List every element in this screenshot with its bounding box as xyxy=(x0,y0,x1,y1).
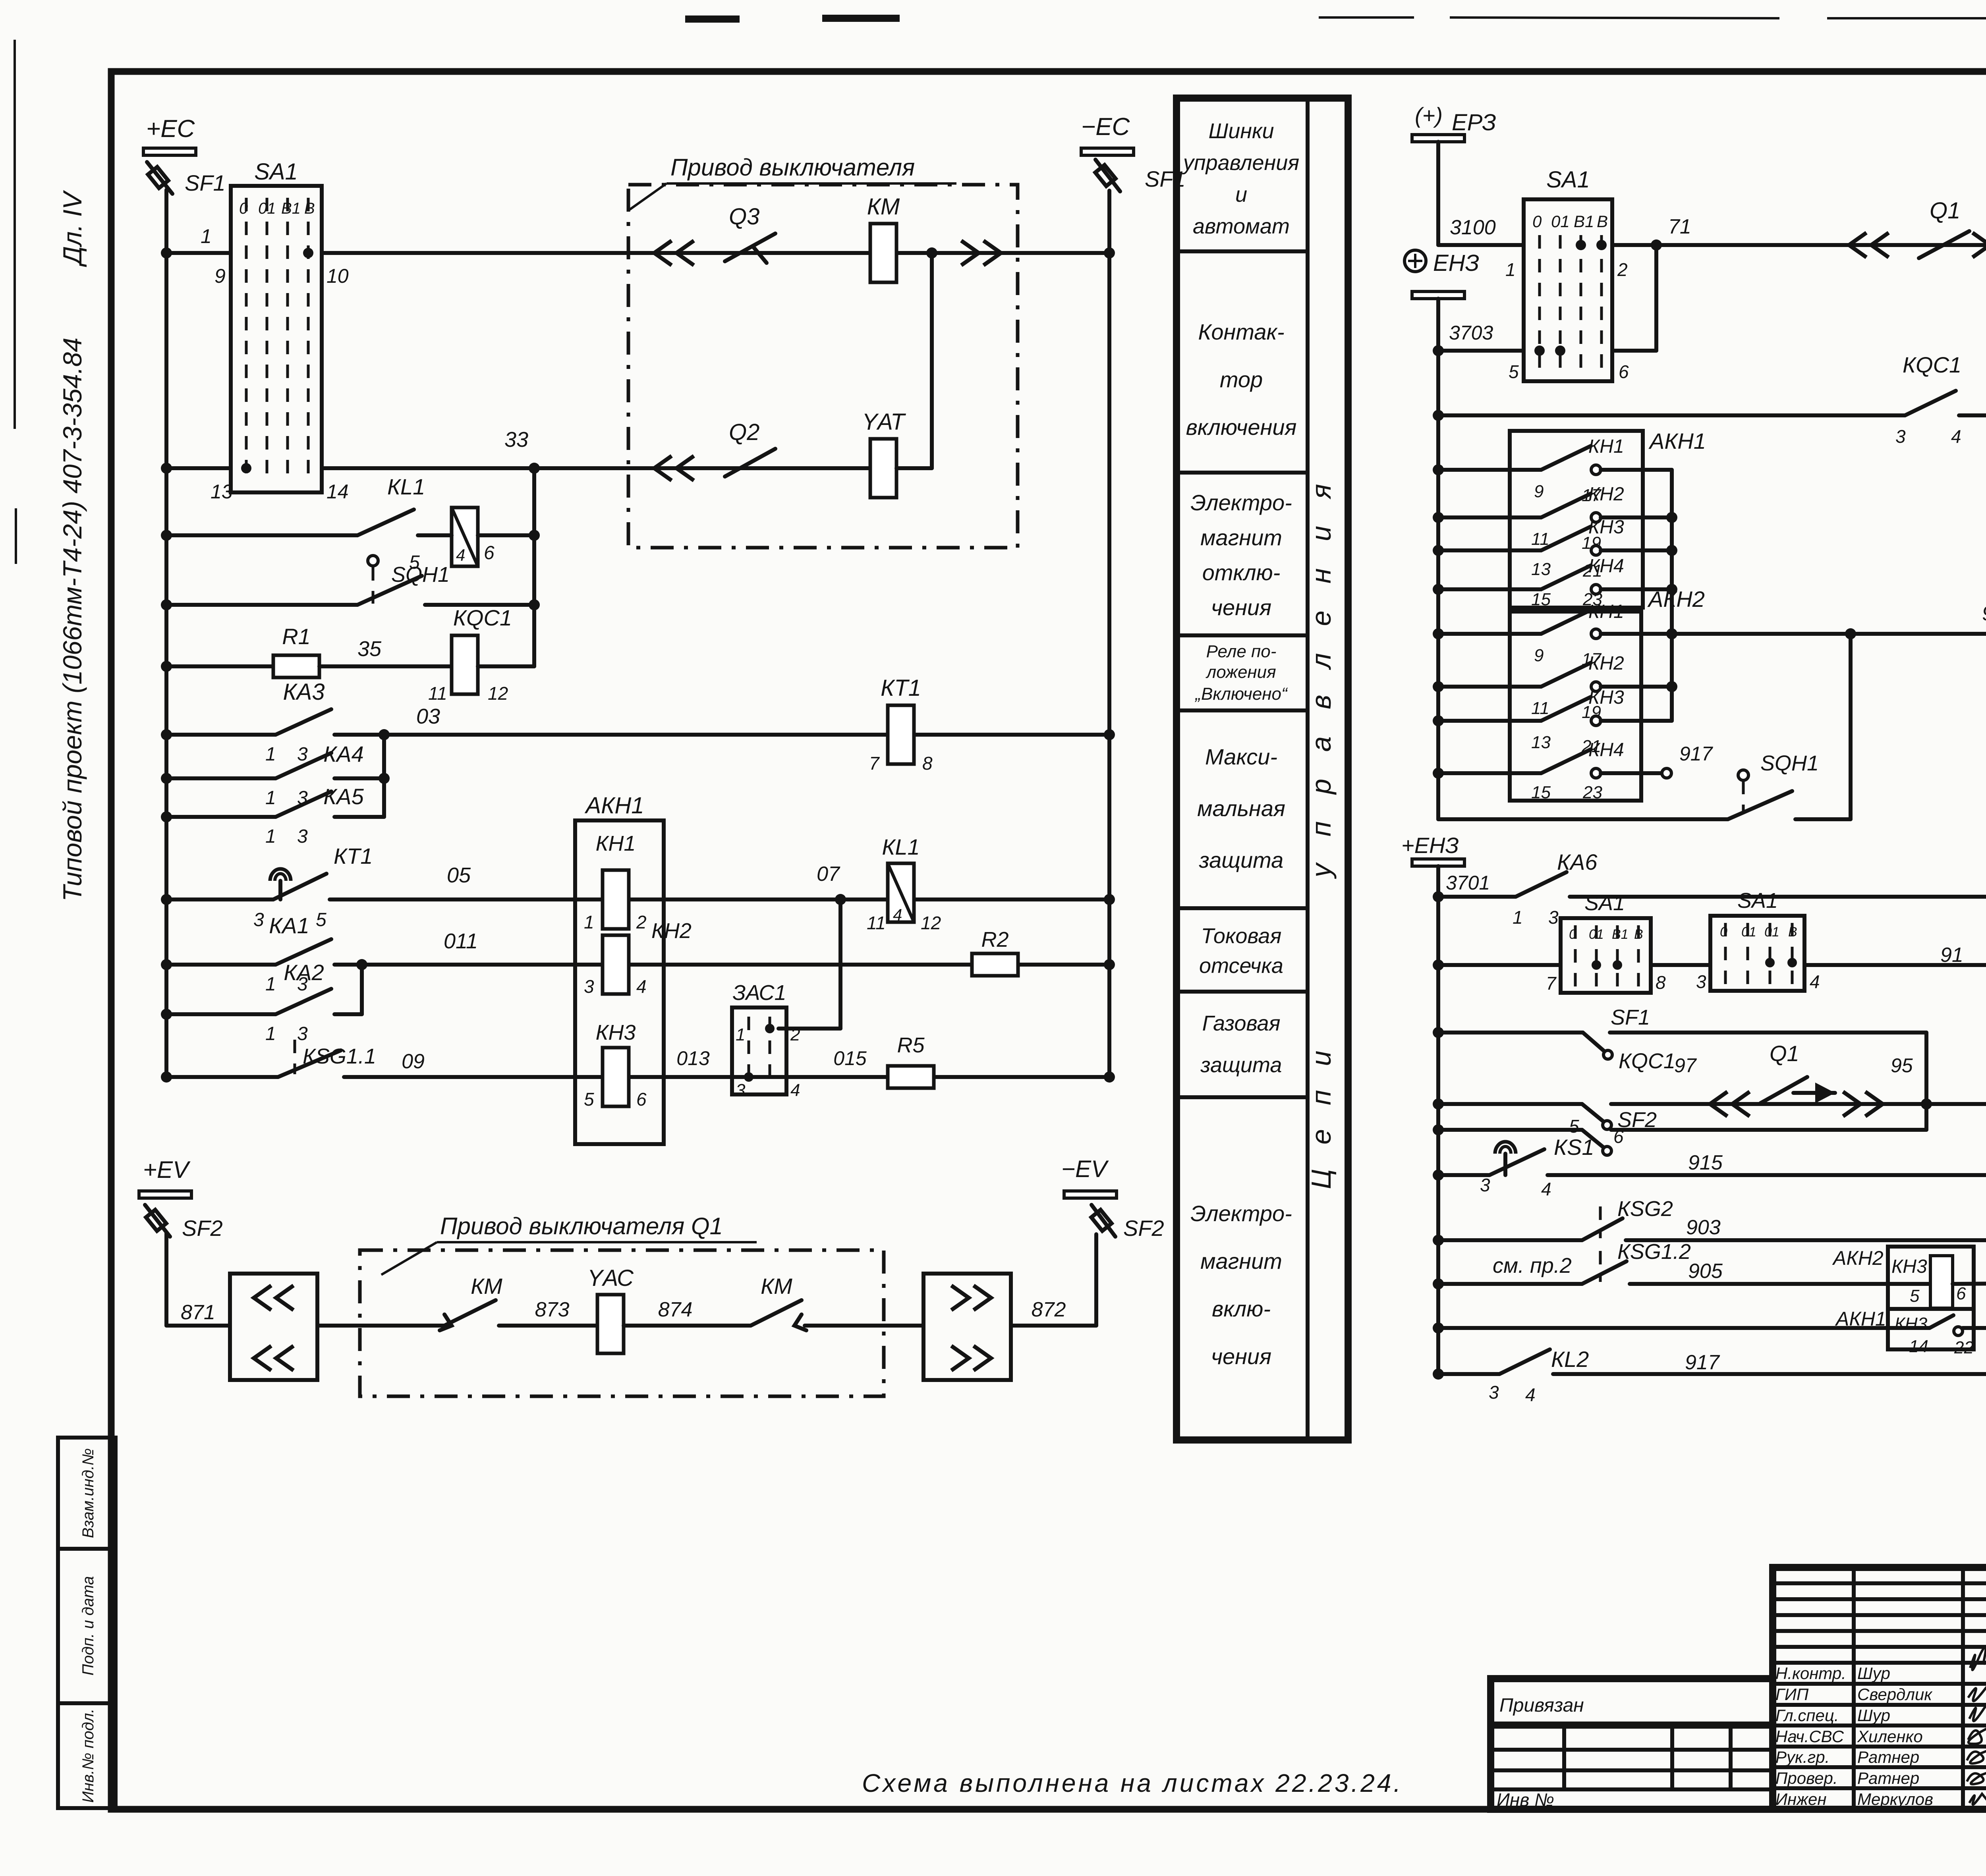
svg-text:отсечка: отсечка xyxy=(1199,954,1283,978)
wire 872 xyxy=(1011,1324,1096,1328)
svg-text:+ЕV: +ЕV xyxy=(143,1156,191,1183)
wire YAT to KM node xyxy=(896,466,932,470)
svg-text:1: 1 xyxy=(1505,259,1516,280)
svg-text:КL1: КL1 xyxy=(387,474,425,499)
svg-text:В: В xyxy=(1597,212,1608,231)
svg-text:01: 01 xyxy=(1764,924,1779,940)
svg-text:отклю-: отклю- xyxy=(1202,560,1281,585)
legend row line 7 xyxy=(1177,1095,1308,1099)
node after KM xyxy=(926,247,937,259)
svg-text:71: 71 xyxy=(1668,215,1691,238)
svg-text:Привод выключателя Q1: Привод выключателя Q1 xyxy=(440,1213,723,1239)
signature scribbles xyxy=(1967,1647,1986,1805)
svg-text:+ЕС: +ЕС xyxy=(146,115,195,143)
svg-text:3: 3 xyxy=(1480,1175,1490,1195)
svg-text:0: 0 xyxy=(1569,927,1576,942)
svg-text:9: 9 xyxy=(214,265,226,287)
gas relay contact KSG1.1 xyxy=(166,1075,278,1079)
breaker SF1 left xyxy=(147,162,172,194)
node 33 xyxy=(529,463,540,474)
legend row line 5 xyxy=(1177,906,1308,910)
contact KN1 a xyxy=(1438,468,1541,472)
svg-text:КSG1.1: КSG1.1 xyxy=(303,1044,376,1068)
breaker SF2 row xyxy=(1438,1128,1582,1132)
svg-text:13: 13 xyxy=(211,481,233,503)
svg-text:КQС1: КQС1 xyxy=(1903,352,1961,377)
current relay contact KA1 xyxy=(166,963,276,967)
svg-text:ЗАС1: ЗАС1 xyxy=(732,981,786,1005)
svg-text:0: 0 xyxy=(1532,212,1542,231)
svg-text:+ЕНЗ: +ЕНЗ xyxy=(1401,833,1459,858)
bus -EV bar xyxy=(1064,1191,1117,1198)
svg-text:15: 15 xyxy=(1531,783,1551,802)
svg-text:АКН2: АКН2 xyxy=(1647,587,1705,612)
svg-text:КL2: КL2 xyxy=(1551,1347,1589,1372)
svg-text:Шур: Шур xyxy=(1857,1706,1890,1725)
contact KN3 14-22 row 911 xyxy=(1438,1326,1930,1330)
wire ZAS1 pin2 to node 07 xyxy=(779,1027,840,1031)
breaker SF1 row 95 xyxy=(1438,1031,1583,1035)
svg-text:КН3: КН3 xyxy=(596,1021,636,1044)
svg-text:КН1: КН1 xyxy=(1588,436,1624,457)
contact KQC1 b xyxy=(1438,1102,1582,1106)
contact KN1 b / wire 901 xyxy=(1438,632,1541,636)
svg-text:SF2: SF2 xyxy=(182,1216,223,1241)
chevrons wire2 xyxy=(654,456,694,481)
contact Q3 xyxy=(725,234,775,261)
svg-text:Взам.инд.№: Взам.инд.№ xyxy=(79,1448,97,1538)
svg-text:В: В xyxy=(1788,924,1797,940)
heater KH1 xyxy=(603,870,629,929)
svg-text:1: 1 xyxy=(201,225,212,247)
collector vertical xyxy=(1670,470,1674,721)
svg-text:магнит: магнит xyxy=(1200,525,1282,550)
svg-text:управления: управления xyxy=(1306,457,1337,879)
contact KA6 row 919 xyxy=(1438,895,1516,899)
svg-text:Инв №: Инв № xyxy=(1497,1789,1554,1810)
svg-text:ЕРЗ: ЕРЗ xyxy=(1452,110,1496,135)
heater KH4 c xyxy=(1926,1102,1986,1106)
svg-text:09: 09 xyxy=(402,1050,425,1073)
svg-text:Нач.СВС: Нач.СВС xyxy=(1775,1727,1844,1746)
svg-text:Шур: Шур xyxy=(1857,1664,1890,1683)
svg-text:3: 3 xyxy=(1696,971,1706,992)
svg-text:1: 1 xyxy=(584,912,594,932)
legend row line 6 xyxy=(1177,990,1308,994)
svg-text:5: 5 xyxy=(1509,361,1519,382)
heater KH2 xyxy=(603,935,629,994)
svg-text:3100: 3100 xyxy=(1450,216,1496,239)
svg-text:−ЕС: −ЕС xyxy=(1081,113,1130,141)
svg-text:В: В xyxy=(304,200,315,217)
contact KN3 b xyxy=(1438,719,1541,723)
signal bus vertical 2 xyxy=(1436,866,1440,1374)
svg-text:Электро-: Электро- xyxy=(1190,1201,1292,1226)
drive box dashed xyxy=(628,185,1018,548)
svg-text:чения: чения xyxy=(1211,595,1271,620)
svg-text:В1: В1 xyxy=(1612,927,1629,942)
svg-text:1: 1 xyxy=(265,1023,276,1044)
svg-text:Хиленко: Хиленко xyxy=(1857,1727,1923,1746)
svg-text:КТ1: КТ1 xyxy=(881,675,921,701)
svg-text:Привязан: Привязан xyxy=(1499,1695,1584,1716)
current relay contact KA4 xyxy=(166,776,276,780)
svg-text:6: 6 xyxy=(636,1089,647,1110)
svg-text:SF1: SF1 xyxy=(1611,1006,1650,1029)
resistor R5 xyxy=(888,1066,934,1088)
legend text: trip electromagnet xyxy=(1190,490,1292,620)
svg-text:9: 9 xyxy=(1534,646,1544,665)
svg-text:КН4: КН4 xyxy=(1588,739,1624,760)
sheet edge dash top c xyxy=(1319,16,1414,19)
svg-text:011: 011 xyxy=(444,929,478,953)
svg-text:3703: 3703 xyxy=(1449,322,1493,344)
box AKN2/KN3 small xyxy=(1888,1247,1974,1349)
svg-text:магнит: магнит xyxy=(1200,1249,1282,1274)
wire EP3 down xyxy=(1436,142,1440,245)
chevrons 71 xyxy=(1849,233,1889,257)
svg-text:КА1: КА1 xyxy=(269,913,309,938)
contact Q2 xyxy=(725,449,775,477)
heater KH3 small xyxy=(1930,1256,1953,1308)
breaker SF2 left xyxy=(145,1205,170,1237)
legend text: gas protection xyxy=(1200,1011,1282,1077)
contactor contact KM b xyxy=(751,1300,802,1326)
sheet edge dash top a xyxy=(685,15,740,23)
svg-text:4: 4 xyxy=(636,976,647,997)
bus -EC bar xyxy=(1081,148,1134,155)
svg-text:АКН2: АКН2 xyxy=(1832,1247,1884,1269)
svg-text:КS1: КS1 xyxy=(1554,1135,1594,1160)
test switch ZAS1 xyxy=(732,1007,786,1094)
svg-text:Электро-: Электро- xyxy=(1190,490,1292,515)
svg-text:11: 11 xyxy=(1531,699,1549,718)
svg-text:4: 4 xyxy=(456,546,465,564)
svg-text:3: 3 xyxy=(584,976,594,997)
contact Q1 top xyxy=(1919,231,1969,258)
svg-text:R1: R1 xyxy=(282,624,311,649)
svg-text:КQС1: КQС1 xyxy=(453,605,512,630)
closing coil YAC xyxy=(597,1295,624,1353)
bus +EC bar xyxy=(143,148,196,155)
sheet edge mark left xyxy=(14,40,16,429)
svg-text:Свердлик: Свердлик xyxy=(1857,1685,1933,1704)
svg-text:вклю-: вклю- xyxy=(1212,1296,1271,1321)
svg-text:872: 872 xyxy=(1032,1298,1066,1321)
svg-text:КМ: КМ xyxy=(867,194,900,220)
svg-text:управления: управления xyxy=(1182,151,1299,175)
wire row 1 left xyxy=(166,251,231,255)
plus circle EH3 xyxy=(1404,250,1426,272)
svg-text:КТ1: КТ1 xyxy=(334,843,373,869)
legend row line 4 xyxy=(1177,708,1308,712)
legend text: max protection xyxy=(1197,744,1285,872)
switch SA1 d xyxy=(1710,916,1804,991)
aux device KL1 rect xyxy=(452,508,478,566)
svg-text:Схема выполнена на листах: Схема выполнена на листах 22.23.24. xyxy=(862,1769,1403,1797)
bus +EV bar xyxy=(139,1191,191,1198)
svg-text:Контак-: Контак- xyxy=(1198,319,1284,344)
contact KSG1.2 row 905 xyxy=(1438,1282,1582,1286)
svg-text:Гл.спец.: Гл.спец. xyxy=(1775,1706,1839,1725)
svg-text:5: 5 xyxy=(316,909,326,930)
svg-text:1: 1 xyxy=(265,974,276,995)
svg-text:Токовая: Токовая xyxy=(1201,924,1282,948)
contact KN4 b wire 917 xyxy=(1438,771,1541,775)
wire row 2 xyxy=(166,466,231,470)
svg-text:защита: защита xyxy=(1199,847,1284,872)
svg-text:0: 0 xyxy=(1720,924,1727,940)
svg-text:917: 917 xyxy=(1685,1351,1720,1374)
title block outer xyxy=(1773,1567,1986,1809)
arrows box right xyxy=(923,1274,1011,1380)
svg-text:5: 5 xyxy=(584,1089,594,1110)
svg-text:917: 917 xyxy=(1679,743,1714,765)
svg-text:5: 5 xyxy=(1910,1286,1920,1306)
position switch SQH1 xyxy=(166,603,357,607)
svg-text:YАТ: YАТ xyxy=(862,409,906,435)
svg-text:см. пр.2: см. пр.2 xyxy=(1493,1254,1572,1278)
svg-text:Макси-: Макси- xyxy=(1205,744,1277,769)
svg-text:1: 1 xyxy=(265,826,276,847)
svg-text:КQС1: КQС1 xyxy=(1619,1049,1675,1073)
svg-text:13: 13 xyxy=(1531,733,1551,752)
svg-text:ЕНЗ: ЕНЗ xyxy=(1433,250,1479,276)
svg-text:R5: R5 xyxy=(897,1033,925,1057)
svg-text:КL1: КL1 xyxy=(882,834,920,859)
current relay contact KA2 xyxy=(166,1012,276,1016)
svg-text:903: 903 xyxy=(1686,1216,1721,1239)
wire to KM contact xyxy=(317,1324,444,1328)
svg-text:Q3: Q3 xyxy=(729,204,759,230)
svg-text:R2: R2 xyxy=(981,928,1008,952)
svg-text:мальная: мальная xyxy=(1197,796,1285,821)
svg-text:22: 22 xyxy=(1954,1338,1974,1357)
legend text: current cutoff xyxy=(1199,924,1283,978)
svg-text:КSG2: КSG2 xyxy=(1617,1197,1673,1221)
current relay contact KA5 xyxy=(166,815,276,819)
switch SA1 right xyxy=(1524,199,1612,381)
svg-text:КН2: КН2 xyxy=(1588,653,1624,674)
sheet edge dash top d xyxy=(1450,17,1779,18)
svg-text:01: 01 xyxy=(1589,927,1604,942)
svg-text:6: 6 xyxy=(1956,1284,1966,1303)
resistor R1 row xyxy=(166,664,273,668)
svg-text:КН2: КН2 xyxy=(651,919,692,943)
svg-text:10: 10 xyxy=(326,265,349,287)
breaker SF2 right xyxy=(1092,1205,1115,1237)
chevrons wire1 xyxy=(654,241,694,265)
margin stamp box Inv xyxy=(58,1703,116,1808)
signature table columns xyxy=(1852,1567,1856,1809)
relay contact KL1 row xyxy=(166,533,357,537)
legend row line 1 xyxy=(1177,249,1308,253)
svg-text:3: 3 xyxy=(1895,426,1906,447)
svg-text:КА4: КА4 xyxy=(323,741,364,766)
svg-text:3701: 3701 xyxy=(1446,872,1490,894)
svg-text:11: 11 xyxy=(428,683,447,704)
svg-text:Меркулов: Меркулов xyxy=(1857,1790,1933,1808)
privyazan table xyxy=(1491,1679,1773,1809)
svg-text:3: 3 xyxy=(297,1023,308,1044)
svg-text:873: 873 xyxy=(535,1298,570,1321)
contact KN2 b xyxy=(1438,685,1541,689)
svg-text:АКН1: АКН1 xyxy=(584,793,644,818)
bus EH3 bar xyxy=(1412,291,1464,299)
svg-text:13: 13 xyxy=(1531,560,1551,579)
contact KN3 a xyxy=(1438,548,1541,552)
heater KH3 xyxy=(603,1048,629,1106)
svg-text:„Включено“: „Включено“ xyxy=(1194,684,1288,704)
svg-text:включения: включения xyxy=(1186,415,1297,440)
contactor contact KM a xyxy=(444,1300,496,1326)
svg-text:Инв.№ подл.: Инв.№ подл. xyxy=(79,1708,97,1803)
svg-text:Рук.гр.: Рук.гр. xyxy=(1775,1748,1830,1766)
svg-text:1: 1 xyxy=(1513,907,1523,928)
arrows box left xyxy=(230,1274,317,1380)
svg-text:14: 14 xyxy=(326,481,349,503)
svg-text:0: 0 xyxy=(239,200,248,217)
svg-text:01: 01 xyxy=(1551,212,1570,231)
svg-text:05: 05 xyxy=(447,863,471,887)
legend row line 2 xyxy=(1177,471,1308,475)
svg-text:01: 01 xyxy=(258,200,276,217)
svg-text:КН3: КН3 xyxy=(1588,687,1624,708)
wire 71 xyxy=(1612,243,1986,247)
svg-text:В1: В1 xyxy=(281,200,301,217)
svg-text:3: 3 xyxy=(297,744,308,765)
right control bus -EC xyxy=(1107,191,1111,1077)
svg-text:7: 7 xyxy=(1546,973,1557,994)
svg-text:15: 15 xyxy=(1531,590,1551,609)
breaker SF1 right xyxy=(1095,160,1120,191)
svg-text:11: 11 xyxy=(867,913,886,933)
svg-text:Подп. и дата: Подп. и дата xyxy=(79,1576,97,1675)
svg-text:КА5: КА5 xyxy=(323,784,364,809)
contact KQC1 row 75 xyxy=(1438,413,1905,417)
svg-text:и: и xyxy=(1235,183,1247,207)
svg-text:4: 4 xyxy=(1541,1179,1551,1199)
signature rows xyxy=(1773,1682,1986,1686)
contact KN2 a xyxy=(1438,515,1541,519)
timer contact KT1 xyxy=(166,897,273,901)
svg-text:013: 013 xyxy=(676,1047,710,1069)
svg-text:SQН1: SQН1 xyxy=(1760,751,1819,775)
svg-text:95: 95 xyxy=(1891,1054,1913,1077)
svg-text:защита: защита xyxy=(1200,1053,1282,1077)
svg-text:2: 2 xyxy=(1617,259,1628,280)
svg-text:12: 12 xyxy=(488,683,508,704)
svg-text:905: 905 xyxy=(1688,1260,1723,1283)
svg-text:871: 871 xyxy=(181,1301,215,1324)
svg-text:Типовой проект (1066тм-Т4-24): Типовой проект (1066тм-Т4-24) 407-3-354.… xyxy=(58,338,87,901)
legend text: closing electromagnet xyxy=(1190,1201,1292,1369)
svg-text:015: 015 xyxy=(833,1047,867,1069)
svg-text:97: 97 xyxy=(1674,1054,1697,1077)
row 91 switch SA1 c xyxy=(1438,963,1561,967)
svg-text:Цепи: Цепи xyxy=(1306,1027,1337,1189)
contact Q1 row 95 xyxy=(1760,1077,1807,1103)
svg-text:КН3: КН3 xyxy=(1588,517,1624,538)
svg-text:АКН1: АКН1 xyxy=(1648,428,1706,454)
svg-text:Реле по-: Реле по- xyxy=(1206,642,1277,661)
sheet edge mark left lower xyxy=(15,508,17,564)
switch SA1 xyxy=(231,186,322,492)
svg-text:5: 5 xyxy=(1569,1116,1579,1137)
svg-text:7: 7 xyxy=(869,753,880,774)
svg-text:Провер.: Провер. xyxy=(1775,1769,1838,1787)
sheet edge dash top b xyxy=(822,15,900,22)
margin stamp box Vzam xyxy=(58,1438,116,1549)
svg-text:(+): (+) xyxy=(1415,103,1443,128)
svg-text:2: 2 xyxy=(636,912,647,932)
svg-text:КН3: КН3 xyxy=(1895,1314,1928,1334)
svg-text:КА6: КА6 xyxy=(1557,849,1598,874)
contact KN4 a xyxy=(1438,587,1541,591)
svg-text:03: 03 xyxy=(416,704,440,728)
svg-text:В1: В1 xyxy=(1574,212,1594,231)
chevrons out wire1 xyxy=(961,241,1001,265)
wire pin6 up xyxy=(1612,349,1656,353)
svg-text:Привод выключателя: Привод выключателя xyxy=(670,154,915,181)
wire 3100 xyxy=(1438,243,1524,247)
svg-text:1: 1 xyxy=(265,744,276,765)
svg-text:Газовая: Газовая xyxy=(1202,1011,1281,1035)
svg-text:КА3: КА3 xyxy=(283,679,325,705)
resistor R2 xyxy=(972,953,1018,976)
svg-text:8: 8 xyxy=(922,753,933,774)
svg-text:SQН1: SQН1 xyxy=(391,563,450,587)
svg-text:тор: тор xyxy=(1220,367,1263,392)
svg-text:КН3: КН3 xyxy=(1891,1256,1927,1277)
svg-text:SF1: SF1 xyxy=(185,170,226,195)
svg-text:автомат: автомат xyxy=(1193,214,1290,238)
contact KL2 row 917 xyxy=(1438,1372,1499,1376)
wire 3703 xyxy=(1438,349,1524,353)
box AKN1 right top xyxy=(1510,431,1643,608)
legend text: buses xyxy=(1182,119,1299,238)
trip coil YAT xyxy=(870,439,896,498)
wire 871 xyxy=(164,1233,168,1326)
sheet edge dash top e xyxy=(1827,17,1986,19)
legend table: control circuits column xyxy=(1177,98,1348,1440)
position relay coil KQC1 xyxy=(452,635,478,694)
svg-text:23: 23 xyxy=(1582,783,1602,802)
svg-text:КSG1.2: КSG1.2 xyxy=(1617,1240,1691,1264)
legend row line 3 xyxy=(1177,633,1308,637)
svg-text:12: 12 xyxy=(921,913,941,933)
svg-text:ложения: ложения xyxy=(1205,662,1276,682)
svg-text:Шинки: Шинки xyxy=(1209,119,1274,143)
svg-text:9: 9 xyxy=(1534,482,1544,501)
drive box Q1 dashed xyxy=(360,1250,884,1396)
svg-text:SА1: SА1 xyxy=(1737,889,1778,913)
bottom wire SQH1 b xyxy=(1438,817,1728,821)
left control bus +EC xyxy=(164,190,168,1077)
svg-text:3: 3 xyxy=(1548,907,1559,928)
svg-text:SА1: SА1 xyxy=(1584,891,1625,915)
svg-text:SF1: SF1 xyxy=(1145,166,1186,191)
legend lane divider xyxy=(1306,98,1310,1440)
timer coil KT1 xyxy=(888,705,914,764)
vertical from node 33 xyxy=(532,468,536,666)
svg-text:ГИП: ГИП xyxy=(1775,1685,1809,1704)
svg-text:4: 4 xyxy=(1525,1384,1536,1405)
svg-text:Q2: Q2 xyxy=(729,419,759,445)
wire row 1 right xyxy=(322,251,1109,255)
svg-text:3: 3 xyxy=(736,1081,746,1100)
svg-text:14: 14 xyxy=(1909,1337,1928,1356)
